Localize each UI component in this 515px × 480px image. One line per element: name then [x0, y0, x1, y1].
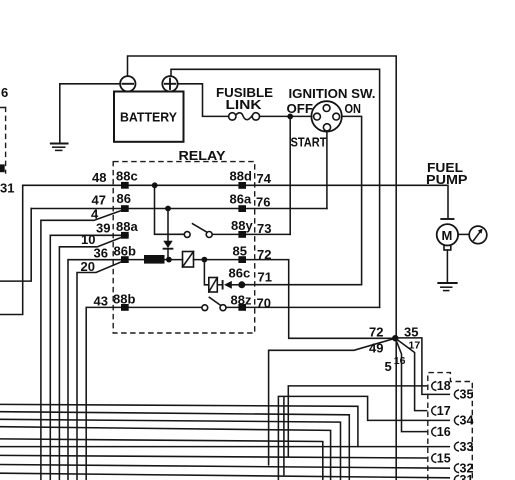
wire 39 to pin 88a: [50, 235, 128, 480]
svg-text:49: 49: [369, 341, 383, 356]
svg-text:48: 48: [92, 170, 106, 185]
wire 36 to pin 86b: [68, 260, 121, 480]
splice node: [392, 335, 398, 341]
svg-text:OFF: OFF: [287, 101, 314, 116]
wire 43 to pin 88b: [86, 307, 121, 480]
wire fusible link to ignition switch: [260, 115, 312, 117]
wire 48 down and out left: [0, 185, 23, 314]
wire 48 / relay row 88c-88d / wire 74 to fuel pump: [23, 185, 448, 217]
svg-text:IGNITION SW.: IGNITION SW.: [289, 86, 376, 101]
switch 88y: [184, 224, 212, 238]
svg-text:15: 15: [437, 451, 451, 465]
wire 4 from pin 86: [41, 209, 125, 480]
wire OFF junction down to relay pin 88y row: [289, 116, 291, 234]
node OFF junction: [287, 114, 293, 120]
relay coil K2: [209, 278, 218, 293]
fusible link FL: [216, 85, 273, 120]
bus wire b1: [0, 404, 358, 446]
wire 47 down and out left: [0, 209, 31, 282]
svg-text:RELAY: RELAY: [179, 148, 226, 163]
fuel pump motor M: [437, 219, 458, 250]
svg-text:88d: 88d: [230, 169, 252, 184]
wire 10 from pin 88a: [59, 236, 124, 480]
wire motor to ground: [446, 250, 448, 282]
svg-text:86c: 86c: [229, 266, 251, 281]
bus wire b6 to connector 33: [0, 446, 449, 448]
battery: [114, 92, 184, 142]
node on 86 row: [165, 206, 171, 212]
wire battery plus up over to right side: [171, 69, 380, 307]
relay coil K1: [183, 252, 194, 268]
left edge connector fragment: [0, 107, 6, 174]
connector 35: [454, 388, 473, 402]
fuel pump label: [426, 160, 468, 187]
connector 18: [432, 379, 451, 393]
relay pin 86b: [121, 256, 129, 263]
svg-text:76: 76: [256, 194, 270, 209]
wire 49: [269, 338, 396, 465]
relay box: [113, 148, 255, 333]
connector 16: [432, 425, 451, 439]
svg-text:88y: 88y: [231, 218, 253, 233]
bus wire b9 to connector 31: [0, 473, 449, 478]
connector 17: [432, 404, 451, 418]
battery plus terminal: [162, 76, 177, 91]
relay pin 88y: [238, 231, 246, 238]
svg-text:20: 20: [81, 259, 95, 274]
relay pin 88d: [238, 182, 246, 189]
svg-text:5: 5: [385, 359, 392, 374]
svg-text:74: 74: [257, 171, 272, 186]
connector box (dashed): [428, 373, 473, 480]
wire ignition START terminal down to relay pin 86a row: [326, 132, 328, 209]
wire ignition ON terminal down to relay pin 86c: [246, 116, 362, 284]
svg-text:73: 73: [257, 221, 271, 236]
svg-text:34: 34: [460, 414, 474, 428]
svg-text:4: 4: [91, 206, 99, 221]
bus wire b4: [0, 427, 331, 480]
diode D1 from 86 row down to 86b row: [163, 209, 172, 260]
resistor R1: [144, 255, 165, 264]
bus wire b8 to connector 32: [0, 465, 449, 469]
svg-text:39: 39: [96, 221, 110, 236]
wire 73 from pin 88y right and up to OFF: [246, 233, 290, 235]
ground (fuel pump): [438, 283, 456, 291]
svg-text:17: 17: [409, 340, 421, 352]
svg-text:86b: 86b: [114, 244, 136, 259]
svg-text:36: 36: [94, 246, 108, 261]
connector 31 (clipped at bottom): [454, 473, 473, 480]
wire switch 88y to pin 88y: [212, 233, 246, 235]
svg-text:31: 31: [0, 181, 14, 196]
relay pin 88a: [121, 232, 129, 239]
wire battery minus up over to right, down as wire 5 to bottom: [128, 56, 397, 480]
wire to connector 18: [288, 386, 426, 457]
relay pin 86c: [238, 281, 245, 288]
svg-text:71: 71: [258, 270, 272, 285]
relay pin 88b: [121, 304, 129, 311]
svg-text:PUMP: PUMP: [426, 172, 468, 187]
wire motor to gauge: [458, 233, 469, 235]
wire battery plus to fusible link: [178, 84, 229, 117]
svg-text:18: 18: [437, 379, 451, 393]
svg-text:LINK: LINK: [226, 97, 263, 112]
svg-text:31: 31: [460, 473, 474, 480]
diode D2: [223, 281, 239, 289]
connector 34: [454, 414, 473, 428]
svg-text:17: 17: [437, 404, 451, 418]
ignition switch SW1: [287, 86, 376, 150]
svg-text:10: 10: [81, 232, 95, 247]
wire node down to coil K2: [204, 260, 208, 285]
bus wire b2: [0, 412, 349, 480]
relay pin 88c: [121, 182, 129, 189]
svg-text:72: 72: [369, 324, 383, 339]
battery minus terminal: [120, 76, 135, 91]
wire 47 / relay row 86-86a / wire 76 START: [31, 208, 327, 210]
svg-text:43: 43: [94, 293, 108, 308]
bus wire b7 to connector 15: [0, 455, 427, 458]
relay pin 86a: [238, 205, 246, 212]
switch 88z: [202, 297, 226, 310]
svg-text:88c: 88c: [116, 169, 138, 184]
wire to connector 34: [278, 396, 449, 480]
wire 16: [395, 338, 426, 431]
svg-text:33: 33: [460, 440, 474, 454]
svg-text:47: 47: [92, 193, 106, 208]
svg-text:88a: 88a: [116, 219, 138, 234]
svg-text:86: 86: [117, 191, 131, 206]
wire switch 88z to pin 88z and out to battery plus line: [226, 306, 380, 308]
svg-text:START: START: [291, 135, 327, 150]
wire coil K2 to diode D2: [217, 284, 222, 286]
wire 86b row through resistor and coil to pin 85: [129, 259, 239, 261]
bus wire b5: [0, 439, 323, 480]
wire 20 from pin 86b: [77, 260, 125, 480]
svg-text:88z: 88z: [231, 292, 252, 307]
svg-text:16: 16: [437, 425, 451, 439]
svg-text:BATTERY: BATTERY: [120, 110, 177, 125]
svg-text:16: 16: [394, 355, 406, 367]
wire 35: [395, 338, 449, 395]
node on 88c row: [152, 182, 158, 188]
connector 33: [454, 440, 473, 454]
wire pin 88b to switch 88z: [129, 306, 202, 308]
svg-text:35: 35: [404, 324, 418, 339]
gauge G1: [469, 226, 487, 244]
svg-text:85: 85: [233, 244, 247, 259]
connector 32: [454, 461, 473, 475]
svg-text:35: 35: [460, 388, 474, 402]
node after coil: [202, 257, 208, 263]
node at diode anode: [166, 257, 172, 263]
wire battery minus to ground: [60, 84, 120, 143]
wire node down to switch 88y left contact: [155, 185, 185, 234]
wire 17: [395, 338, 426, 410]
ground (battery): [51, 144, 68, 151]
svg-text:70: 70: [257, 296, 271, 311]
svg-text:72: 72: [257, 247, 271, 262]
svg-text:6: 6: [1, 85, 8, 100]
svg-text:86a: 86a: [230, 192, 252, 207]
svg-text:88b: 88b: [113, 292, 135, 307]
svg-text:ON: ON: [345, 101, 362, 116]
relay pin 85: [238, 256, 246, 263]
wire 72 from pin 85 right, down, to splice: [246, 260, 395, 339]
relay pin 86: [121, 205, 129, 212]
svg-text:M: M: [442, 228, 453, 243]
connector 15: [432, 451, 451, 465]
bus wire b3: [0, 419, 341, 480]
relay pin 88z: [238, 304, 246, 311]
